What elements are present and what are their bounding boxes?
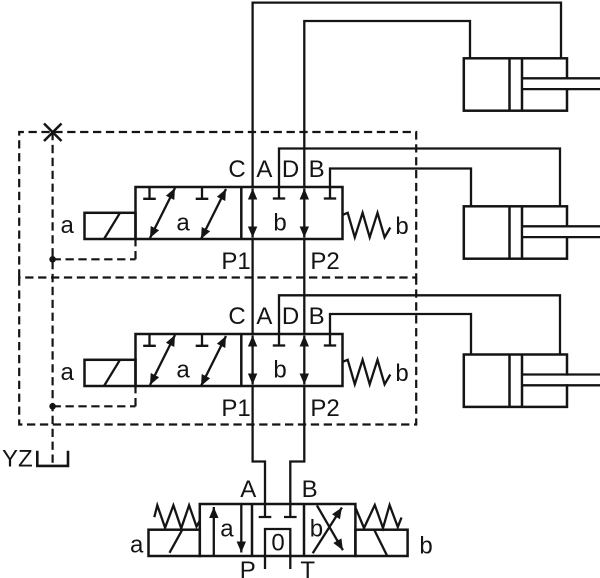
svg-text:P2: P2 [310,395,339,422]
svg-text:P: P [240,557,256,578]
svg-text:b: b [419,533,432,560]
svg-text:a: a [176,210,190,237]
svg-text:b: b [310,516,323,543]
svg-text:C: C [228,303,245,330]
svg-text:a: a [176,357,190,384]
svg-text:C: C [228,156,245,183]
svg-text:a: a [220,516,234,543]
svg-text:A: A [256,156,272,183]
svg-text:A: A [240,476,256,503]
svg-text:a: a [61,212,75,239]
svg-text:a: a [61,359,75,386]
svg-text:P2: P2 [310,248,339,275]
svg-text:YZ: YZ [2,446,33,473]
svg-text:A: A [256,303,272,330]
svg-text:b: b [395,360,408,387]
svg-text:b: b [395,213,408,240]
svg-text:T: T [300,557,315,578]
svg-text:P1: P1 [221,248,250,275]
svg-text:B: B [302,476,318,503]
svg-text:0: 0 [271,530,284,557]
svg-text:a: a [130,532,144,559]
svg-text:D: D [282,156,299,183]
svg-text:b: b [273,210,286,237]
svg-text:B: B [309,156,325,183]
svg-text:b: b [273,357,286,384]
svg-text:B: B [309,303,325,330]
svg-text:D: D [282,303,299,330]
svg-text:P1: P1 [221,395,250,422]
